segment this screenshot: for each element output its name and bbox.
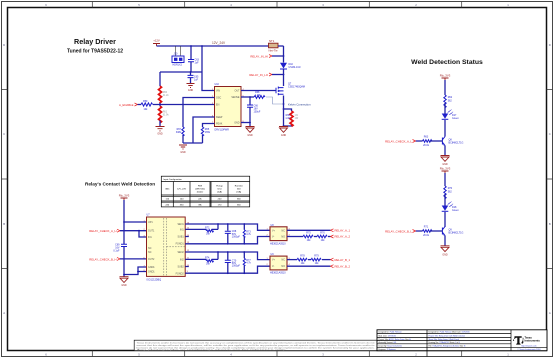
svg-text:348k: 348k — [176, 131, 182, 134]
svg-text:V-: V- — [272, 236, 274, 239]
svg-text:Weld Detection Status: Weld Detection Status — [411, 59, 483, 66]
LED D18 — [442, 201, 460, 211]
svg-text:C: C — [3, 132, 5, 136]
svg-text:NC: NC — [282, 229, 286, 232]
power port Rly_3V3 — [440, 73, 451, 80]
op-amp-ic U10 DRV110 — [212, 83, 245, 131]
svg-text:(mA): (mA) — [217, 190, 222, 193]
svg-text:RELAY_A_2: RELAY_A_2 — [335, 235, 351, 239]
wire ch2 bottom — [185, 266, 270, 273]
wire OUT to gate — [241, 90, 276, 92]
svg-text:4.7k: 4.7k — [246, 233, 251, 236]
ground — [156, 127, 165, 136]
svg-text:GND: GND — [180, 151, 186, 154]
net-tie NT1 — [269, 39, 284, 52]
svg-text:D: D — [549, 43, 551, 47]
svg-text:Project Title: Relay Driver wi: Project Title: Relay Driver with Weld De… — [429, 334, 466, 337]
wire ch1 top — [185, 224, 270, 230]
svg-text:Rly_3V3: Rly_3V3 — [119, 194, 130, 198]
capacitor C66 — [247, 97, 261, 127]
svg-text:Runtime: Runtime — [235, 184, 244, 187]
resistor R61 — [159, 105, 170, 127]
svg-text:File: TIDA-00751_RelayDriver.S: File: TIDA-00751_RelayDriver.SchDoc Size… — [429, 345, 467, 348]
wire EN — [153, 104, 215, 106]
svg-text:GND: GND — [234, 122, 240, 125]
svg-text:Relay Driver: Relay Driver — [74, 37, 116, 46]
svg-text:DRV110PWR: DRV110PWR — [215, 129, 230, 132]
power port Rly_3V3 — [440, 166, 451, 173]
svg-text:Sheet Title: Relay Driver / We: Sheet Title: Relay Driver / Weld Check — [429, 338, 460, 341]
flag RELAY_IN_HI — [250, 55, 283, 59]
svg-text:Green: Green — [452, 209, 459, 212]
svg-text:Designed for: Public Release: Designed for: Public Release Mod. Date: … — [429, 331, 470, 334]
svg-text:PEAK: PEAK — [216, 123, 223, 126]
svg-text:OUT: OUT — [234, 90, 240, 93]
svg-text:Designed for: Public Release: Designed for: Public Release — [379, 332, 402, 334]
svg-text:Pickup: Pickup — [216, 185, 223, 187]
svg-text:limit: limit — [218, 187, 222, 190]
svg-text:V-: V- — [272, 265, 274, 268]
flag RELAY_B_2 — [331, 264, 351, 268]
SECTION-CONTACT-WELD — [85, 176, 350, 287]
wire — [444, 212, 446, 227]
svg-text:RELAY_B_1: RELAY_B_1 — [335, 258, 351, 262]
svg-text:1000pF: 1000pF — [232, 235, 241, 238]
relay U8 — [267, 224, 291, 246]
svg-text:GND: GND — [281, 134, 287, 137]
svg-text:ISO1212DBQ: ISO1212DBQ — [147, 278, 162, 281]
svg-text:Net-Tie: Net-Tie — [269, 48, 279, 52]
ground — [120, 277, 129, 288]
svg-text:(mA): (mA) — [236, 190, 241, 193]
svg-text:R76: R76 — [320, 232, 325, 235]
wire switch column — [283, 46, 285, 127]
wire — [444, 103, 446, 114]
table Input Configuration — [161, 176, 249, 207]
resistor R60 — [159, 72, 170, 105]
svg-text:U10: U10 — [215, 83, 220, 86]
flag RELAY_CHECK_A_H — [89, 229, 146, 233]
svg-text:Kelvin Connection: Kelvin Connection — [288, 102, 311, 106]
wire — [444, 120, 446, 137]
svg-text:RELAY_CHECK_A_L: RELAY_CHECK_A_L — [385, 140, 412, 144]
svg-text:SEN2: SEN2 — [177, 251, 184, 254]
svg-text:NC: NC — [148, 251, 152, 254]
svg-text:Input Configuration: Input Configuration — [163, 178, 182, 181]
svg-text:HE3621A0510: HE3621A0510 — [270, 272, 286, 275]
svg-text:R79: R79 — [314, 255, 319, 258]
svg-text:Drawn By: Texas Instruments: Drawn By: Texas Instruments — [379, 345, 402, 348]
LED D17 — [442, 109, 460, 119]
relay U9 — [267, 253, 291, 275]
resistor R63 — [416, 136, 443, 147]
svg-text:J10: J10 — [174, 53, 179, 56]
wire PEAK — [203, 124, 215, 128]
title block table — [377, 330, 547, 357]
svg-text:20.0k: 20.0k — [423, 144, 430, 147]
SECTION-TITLEBLOCK — [134, 330, 547, 357]
svg-text:OUT2: OUT2 — [148, 258, 155, 261]
svg-text:Relay's Contact Weld Detection: Relay's Contact Weld Detection — [85, 182, 155, 187]
svg-text:Mod. Date: 1/19/2016: Mod. Date: 1/19/2016 — [379, 334, 396, 337]
resistor R70 — [444, 186, 453, 199]
svg-text:NT1: NT1 — [269, 39, 275, 43]
resistor R62 — [444, 95, 453, 108]
svg-text:Any photographs or renderings: Any photographs or renderings shown are … — [137, 348, 289, 351]
svg-text:© Texas Instruments 2016: © Texas Instruments 2016 — [517, 348, 541, 351]
svg-text:Drawing No.: TIDA-00751 Sheet: Drawing No.: TIDA-00751 Sheet: 3 of 4 — [429, 341, 460, 344]
wire VCC feed — [124, 221, 147, 223]
flag RELAY_CHECK_B_L — [385, 230, 415, 234]
resistor R76 — [317, 232, 331, 242]
wire — [444, 146, 446, 156]
svg-text:165k: 165k — [205, 131, 211, 134]
svg-text:R72: R72 — [205, 227, 210, 230]
svg-text:1uF: 1uF — [195, 62, 200, 65]
capacitor C68 — [225, 224, 241, 244]
wire OSC — [183, 98, 215, 128]
flag RELAY_CHECK_A_L — [385, 140, 415, 144]
wire KEEP — [193, 117, 215, 143]
wire — [444, 236, 446, 246]
svg-text:R63: R63 — [424, 136, 429, 139]
transistor Q9 — [442, 227, 463, 236]
wire relay out A2 — [287, 236, 303, 238]
svg-text:GND: GND — [188, 89, 194, 92]
svg-text:SEN1: SEN1 — [177, 223, 184, 226]
svg-text:HDR1X2: HDR1X2 — [173, 64, 183, 67]
svg-text:(DRV110): (DRV110) — [195, 188, 205, 190]
wire ch2 top — [185, 252, 270, 260]
resistor R71 — [416, 226, 443, 237]
svg-text:EN: EN — [216, 104, 220, 107]
flag RELAY_A_1 — [331, 229, 351, 233]
svg-text:KEEP: KEEP — [216, 116, 223, 119]
flag RELAY_CHECK_B_H — [89, 257, 146, 261]
svg-text:R71: R71 — [424, 226, 429, 229]
TI logo — [513, 336, 542, 352]
resistor R74 — [185, 252, 218, 266]
wire — [444, 173, 446, 186]
svg-text:BC848CLT1G: BC848CLT1G — [449, 232, 464, 235]
svg-text:+12V: +12V — [153, 39, 160, 43]
wire relay out B1 — [287, 259, 297, 261]
power port Rly_3V3 — [119, 194, 130, 200]
ground — [441, 246, 450, 256]
wire ch1 bottom — [185, 237, 270, 244]
svg-text:limit: limit — [237, 187, 241, 190]
wire — [444, 194, 446, 206]
svg-text:100uF: 100uF — [254, 111, 261, 114]
capacitor C63 — [188, 46, 200, 72]
wire 12V rail — [157, 45, 269, 47]
wire GND pins — [124, 267, 147, 275]
capacitor C69 — [113, 243, 127, 252]
resistor R75 — [303, 232, 317, 242]
resistor R78 — [297, 255, 311, 265]
svg-text:NO: NO — [281, 265, 285, 268]
svg-text:0.1uF: 0.1uF — [113, 249, 120, 252]
svg-text:R59: R59 — [143, 100, 148, 103]
svg-text:GND1: GND1 — [148, 270, 155, 273]
ground — [246, 127, 255, 138]
svg-text:OUT1: OUT1 — [148, 230, 155, 233]
svg-text:1000pF: 1000pF — [232, 265, 241, 268]
svg-text:Green: Green — [452, 117, 459, 120]
svg-text:RELAY_IN_HI: RELAY_IN_HI — [250, 55, 268, 59]
node junctions — [159, 45, 203, 105]
wire relay out B2 — [287, 265, 331, 267]
svg-text:NO: NO — [281, 236, 285, 239]
svg-text:R75: R75 — [306, 232, 311, 235]
svg-text:20.0k: 20.0k — [423, 234, 430, 237]
svg-text:1.00k: 1.00k — [255, 94, 262, 97]
svg-text:1.00: 1.00 — [285, 117, 290, 120]
connector J10 — [172, 46, 184, 67]
svg-text:OSC: OSC — [216, 97, 221, 100]
svg-text:562: 562 — [448, 99, 453, 102]
wire relay out A1 — [287, 229, 331, 231]
svg-text:NC: NC — [282, 259, 286, 262]
svg-text:R74: R74 — [205, 257, 210, 260]
wire resistor commons — [183, 142, 203, 144]
svg-text:Assembly Variant: 001: Assembly Variant: 001 — [379, 341, 397, 344]
svg-text:NC: NC — [148, 247, 152, 250]
SECTION-RELAY-DRIVER — [67, 37, 311, 154]
resistor R79 — [311, 255, 331, 265]
svg-text:A_ENABLE: A_ENABLE — [119, 103, 134, 107]
wire — [444, 80, 446, 95]
svg-text:B: B — [3, 222, 5, 226]
svg-text:562: 562 — [448, 190, 453, 193]
svg-text:RELAY_IN_LO: RELAY_IN_LO — [249, 73, 268, 77]
svg-text:IN2: IN2 — [180, 258, 184, 261]
svg-text:divider: divider — [197, 190, 204, 193]
isolator U7 ISO1212 — [144, 214, 190, 282]
transistor Q7 MOSFET — [276, 82, 305, 95]
svg-text:BC848CLT1G: BC848CLT1G — [449, 142, 464, 145]
SECTION-WELD-STATUS — [385, 59, 483, 256]
svg-text:GND: GND — [247, 134, 253, 137]
svg-text:RELAY_B_2: RELAY_B_2 — [335, 264, 351, 268]
svg-text:UP1: UP1 — [148, 221, 153, 224]
ground — [179, 145, 187, 154]
svg-text:A: A — [3, 311, 5, 315]
diode D10 — [280, 63, 301, 69]
svg-text:CSD17483Q4M: CSD17483Q4M — [288, 86, 305, 89]
svg-text:1uF: 1uF — [194, 79, 199, 82]
wire VIN feed — [202, 46, 215, 91]
flag RELAY_A_2 — [331, 235, 351, 239]
svg-text:GND: GND — [121, 284, 127, 287]
svg-text:4.7k: 4.7k — [246, 262, 251, 265]
capacitor C70 — [225, 252, 241, 273]
svg-text:RELAY_CHECK_B_L: RELAY_CHECK_B_L — [385, 230, 412, 234]
capacitor C65 — [188, 72, 200, 83]
svg-text:IN1: IN1 — [148, 236, 152, 239]
svg-text:12V_24V: 12V_24V — [212, 41, 226, 45]
svg-text:R78: R78 — [300, 255, 305, 258]
ground — [187, 84, 195, 93]
wire IC GND pin — [241, 122, 250, 124]
resistor R59 — [141, 100, 153, 111]
wire SENSE — [241, 96, 254, 98]
svg-text:RELAY_A_1: RELAY_A_1 — [335, 229, 351, 233]
ground — [279, 127, 288, 138]
svg-text:RELAY_CHECK_A_H: RELAY_CHECK_A_H — [89, 229, 116, 233]
node junctions — [249, 55, 284, 127]
wire power rail — [123, 200, 125, 277]
svg-text:FGND1: FGND1 — [176, 243, 185, 246]
svg-text:HE3621A0510: HE3621A0510 — [270, 242, 286, 245]
resistor R72 — [185, 224, 218, 236]
resistor R66 sense — [284, 109, 299, 126]
resistor R77 — [243, 252, 251, 273]
svg-text:Rly_3V3: Rly_3V3 — [440, 73, 451, 77]
svg-text:61.9k: 61.9k — [163, 114, 170, 117]
svg-text:IN1: IN1 — [180, 228, 184, 231]
resistor R73 — [243, 224, 251, 244]
wire IN1 jog — [139, 231, 147, 237]
svg-text:SUB1: SUB1 — [177, 236, 184, 239]
resistor R65 — [201, 127, 210, 143]
svg-text:Instruments: Instruments — [525, 339, 541, 343]
flag RELAY_IN_LO — [249, 73, 283, 77]
power port +12V — [153, 39, 160, 47]
disclaimer box — [134, 340, 377, 351]
resistor R68 — [254, 91, 284, 104]
resistor R67 — [176, 127, 184, 143]
svg-text:12V_24V: 12V_24V — [177, 188, 187, 190]
transistor Q8 — [442, 137, 463, 146]
flag RELAY_B_1 — [331, 258, 351, 262]
svg-text:Engineer: TI Systems: Engineer: TI Systems — [379, 348, 396, 351]
svg-text:A: A — [549, 311, 551, 315]
svg-text:VAC: VAC — [165, 187, 170, 190]
svg-text:C: C — [549, 132, 551, 136]
svg-text:VIN: VIN — [216, 90, 220, 93]
svg-text:41.2k: 41.2k — [163, 94, 170, 97]
svg-text:GND: GND — [442, 253, 448, 256]
svg-text:RELAY_CHECK_B_H: RELAY_CHECK_B_H — [89, 257, 116, 261]
svg-text:Project Title: AC/DC Relay Dri: Project Title: AC/DC Relay Driver Rev: A — [379, 338, 412, 341]
svg-text:Tuned for T9AS5D22-12: Tuned for T9AS5D22-12 — [67, 49, 123, 55]
svg-text:GND1: GND1 — [148, 266, 155, 269]
svg-text:SUB2: SUB2 — [177, 265, 184, 268]
svg-text:http://www.ti.com: http://www.ti.com — [521, 345, 536, 348]
svg-text:B: B — [549, 222, 551, 226]
wire branch — [160, 71, 202, 73]
svg-text:D: D — [3, 43, 5, 47]
svg-text:US1M-13-F: US1M-13-F — [289, 66, 302, 69]
flag A_ENABLE — [119, 103, 141, 107]
svg-text:Rly_3V3: Rly_3V3 — [440, 166, 451, 170]
ground — [441, 156, 450, 167]
svg-text:FGND2: FGND2 — [176, 272, 185, 275]
svg-text:GND: GND — [157, 133, 163, 136]
svg-text:SENSE: SENSE — [231, 96, 240, 99]
